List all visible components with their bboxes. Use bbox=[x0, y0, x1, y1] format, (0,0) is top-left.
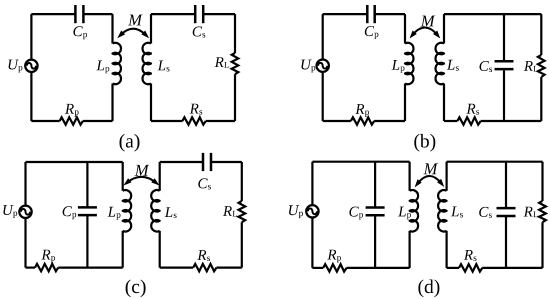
wire a left branch bbox=[30, 14, 32, 121]
wire c Lp bottom bbox=[122, 231, 124, 268]
wire d Cs top bbox=[505, 162, 507, 209]
wire b top-left bbox=[375, 13, 405, 15]
label RL (c) bbox=[223, 206, 237, 216]
label RL (a) bbox=[215, 57, 229, 67]
wire d bottom-right 2 bbox=[482, 267, 542, 269]
wire a bottom-left 1 bbox=[31, 120, 59, 122]
label Cs (d) bbox=[479, 207, 492, 218]
label Cp (d) bbox=[349, 207, 363, 220]
wire d bottom-right 1 bbox=[447, 267, 459, 269]
label Rs (a) bbox=[190, 104, 203, 115]
inductor Ls (c) bbox=[151, 190, 159, 231]
wire b top-left bbox=[323, 13, 368, 15]
AC source Up (a) bbox=[25, 60, 37, 72]
capacitor Cp (b) bbox=[367, 5, 374, 23]
label Up (d) bbox=[289, 205, 303, 218]
capacitor Cs (b) bbox=[495, 61, 514, 69]
wire c Lp top bbox=[122, 162, 124, 191]
wire c top-left bbox=[26, 161, 123, 163]
label Up (b) bbox=[301, 60, 315, 73]
wire c right branch top bbox=[241, 162, 243, 201]
label Rs (c) bbox=[197, 250, 210, 261]
mutual coupling arrow M (c) bbox=[127, 177, 156, 183]
capacitor Cs (c) bbox=[203, 153, 211, 171]
wire d right branch bottom bbox=[541, 222, 543, 268]
label Rs (d) bbox=[464, 250, 477, 261]
wire b Ls top bbox=[443, 14, 445, 43]
label Lp (c) bbox=[108, 207, 121, 220]
wire c Ls bottom bbox=[159, 231, 161, 268]
wire d top-left bbox=[312, 161, 409, 163]
wire b Cs top bbox=[503, 14, 505, 61]
resistor RL (b) bbox=[538, 55, 545, 77]
wire c bottom-left 1 bbox=[26, 267, 35, 269]
resistor Rp (c) bbox=[35, 264, 58, 271]
wire b bottom-left 2 bbox=[374, 120, 405, 122]
label Cp (a) bbox=[73, 26, 87, 39]
wire d Lp top bbox=[409, 162, 411, 191]
label Rp (b) bbox=[355, 104, 369, 117]
wire a bottom-left 2 bbox=[83, 120, 113, 122]
inductor Lp (a) bbox=[113, 43, 121, 84]
wire d Cs bottom bbox=[505, 216, 507, 268]
wire b right branch bottom bbox=[540, 77, 542, 121]
label Cp (c) bbox=[63, 206, 77, 219]
label Cp (b) bbox=[365, 26, 379, 39]
label Cs (a) bbox=[193, 27, 206, 38]
AC source Up (d) bbox=[306, 205, 318, 217]
label M (d) bbox=[423, 163, 438, 174]
label Rp (d) bbox=[327, 250, 341, 263]
wire c left branch bbox=[24, 162, 26, 268]
caption (b) bbox=[414, 134, 435, 152]
wire c top-right bbox=[211, 161, 242, 163]
inductor Ls (a) bbox=[143, 43, 151, 84]
wire d bottom-left 2 bbox=[347, 267, 410, 269]
wire a right branch bottom bbox=[234, 74, 236, 121]
label Rp (a) bbox=[65, 104, 79, 117]
wire a Ls top bbox=[150, 14, 152, 43]
mutual coupling arrow M (a) bbox=[121, 29, 146, 35]
wire a top-right bbox=[203, 13, 235, 15]
resistor Rs (b) bbox=[457, 117, 480, 124]
resistor Rs (a) bbox=[182, 117, 205, 124]
wire a bottom-right 1 bbox=[151, 120, 183, 122]
resistor Rs (d) bbox=[459, 264, 482, 271]
wire c bottom-right 2 bbox=[216, 267, 241, 269]
inductor Lp (b) bbox=[405, 43, 413, 84]
label Ls (d) bbox=[451, 207, 463, 218]
label Cs (c) bbox=[198, 178, 211, 189]
inductor Lp (c) bbox=[123, 190, 131, 231]
wire c Ls top bbox=[159, 162, 161, 191]
wire d left branch bbox=[311, 162, 313, 268]
label RL (d) bbox=[524, 207, 538, 217]
wire a top-left bbox=[83, 13, 112, 15]
wire a top-left bbox=[31, 13, 75, 15]
resistor Rp (d) bbox=[323, 264, 346, 271]
label Ls (b) bbox=[447, 60, 459, 71]
label M (c) bbox=[135, 165, 150, 176]
caption (a) bbox=[120, 134, 140, 152]
label Rs (b) bbox=[466, 104, 479, 115]
wire b Ls bottom bbox=[443, 84, 445, 122]
label Up (c) bbox=[3, 205, 17, 218]
inductor Lp (d) bbox=[410, 190, 418, 231]
inductor Ls (b) bbox=[436, 43, 444, 84]
wire b Lp top bbox=[404, 14, 406, 43]
capacitor Cp (d) bbox=[366, 207, 385, 215]
wire c bottom-right 1 bbox=[160, 267, 193, 269]
AC source Up (c) bbox=[19, 206, 31, 218]
wire d Lp bottom bbox=[409, 231, 411, 268]
wire c Cp top bbox=[86, 162, 88, 207]
resistor Rp (a) bbox=[60, 117, 83, 124]
wire c Cp bottom bbox=[86, 215, 88, 267]
inductor Ls (d) bbox=[438, 190, 446, 231]
wire d Ls bottom bbox=[446, 231, 448, 268]
wire d right branch top bbox=[541, 162, 543, 201]
resistor Rp (b) bbox=[351, 117, 374, 124]
label Cs (b) bbox=[480, 61, 493, 72]
label Lp (a) bbox=[96, 61, 109, 74]
label M (a) bbox=[128, 15, 143, 26]
wire b bottom-right 2 bbox=[481, 120, 542, 122]
label Up (a) bbox=[9, 60, 23, 73]
capacitor Cp (a) bbox=[75, 5, 83, 23]
wire b Lp bottom bbox=[404, 84, 406, 122]
label RL (b) bbox=[524, 61, 538, 71]
capacitor Cs (d) bbox=[497, 208, 516, 216]
wire a Lp top bbox=[111, 14, 113, 43]
wire d Cp bottom bbox=[374, 215, 376, 268]
wire b left branch bbox=[322, 14, 324, 121]
wire a Lp bottom bbox=[111, 84, 113, 122]
AC source Up (b) bbox=[317, 59, 329, 71]
wire b Cs bottom bbox=[503, 69, 505, 121]
label Rp (c) bbox=[41, 250, 55, 263]
capacitor Cp (c) bbox=[78, 207, 97, 215]
label M (b) bbox=[421, 16, 436, 27]
wire c right branch bottom bbox=[241, 222, 243, 267]
wire d Ls top bbox=[446, 162, 448, 191]
resistor Rs (c) bbox=[193, 264, 216, 271]
wire c top-right bbox=[160, 161, 203, 163]
wire a bottom-right 2 bbox=[206, 120, 235, 122]
mutual coupling arrow M (d) bbox=[417, 176, 441, 184]
label Lp (b) bbox=[392, 60, 405, 73]
resistor RL (c) bbox=[239, 201, 246, 222]
resistor RL (a) bbox=[232, 53, 239, 74]
label Ls (c) bbox=[165, 207, 177, 218]
capacitor Cs (a) bbox=[195, 5, 203, 23]
wire d bottom-left 1 bbox=[312, 267, 323, 269]
caption (d) bbox=[418, 280, 439, 298]
wire c bottom-left 2 bbox=[58, 267, 122, 269]
label Lp (d) bbox=[398, 207, 411, 220]
resistor RL (d) bbox=[539, 201, 546, 222]
caption (c) bbox=[126, 280, 146, 298]
mutual coupling arrow M (b) bbox=[412, 28, 437, 36]
wire d Cp top bbox=[374, 162, 376, 208]
wire a Ls bottom bbox=[150, 84, 152, 122]
wire a right branch top bbox=[234, 14, 236, 53]
wire b right branch top bbox=[540, 14, 542, 55]
label Ls (a) bbox=[158, 61, 170, 72]
wire a top-right bbox=[151, 13, 195, 15]
wire b bottom-left 1 bbox=[323, 120, 351, 122]
wire b bottom-right 1 bbox=[444, 120, 457, 122]
wire d top-right bbox=[447, 161, 543, 163]
wire b top-right bbox=[444, 13, 541, 15]
